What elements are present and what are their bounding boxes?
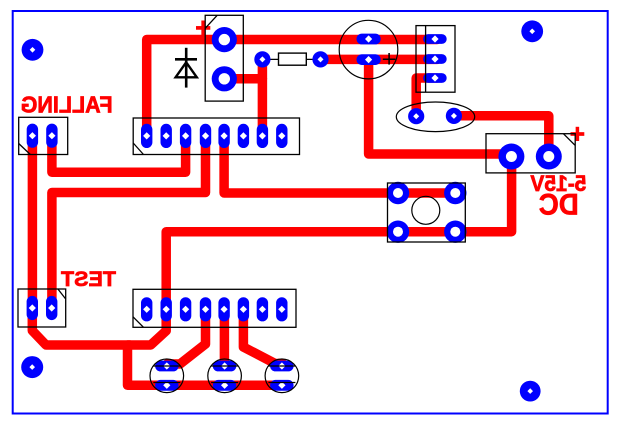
svg-text:TEST: TEST: [61, 266, 116, 291]
svg-text:DC: DC: [539, 188, 579, 221]
svg-text:FALLING: FALLING: [21, 92, 113, 118]
